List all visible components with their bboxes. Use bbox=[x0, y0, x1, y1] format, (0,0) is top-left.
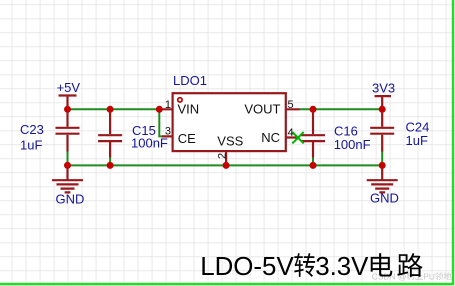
svg-text:3V3: 3V3 bbox=[372, 80, 395, 95]
svg-text:100nF: 100nF bbox=[334, 137, 371, 152]
svg-text:VSS: VSS bbox=[217, 134, 243, 149]
svg-text:NC: NC bbox=[261, 130, 280, 145]
svg-text:C16: C16 bbox=[334, 123, 358, 138]
svg-text:GND: GND bbox=[370, 191, 399, 206]
svg-text:2: 2 bbox=[217, 153, 229, 159]
svg-text:3: 3 bbox=[165, 126, 171, 138]
svg-text:LDO-5V: LDO-5V bbox=[200, 253, 294, 281]
svg-text:4: 4 bbox=[288, 127, 294, 139]
svg-text:C23: C23 bbox=[20, 122, 44, 137]
svg-text:LDO1: LDO1 bbox=[173, 73, 207, 88]
svg-text:1: 1 bbox=[165, 99, 171, 111]
svg-text:PU: PU bbox=[423, 271, 435, 281]
svg-text:100nF: 100nF bbox=[131, 136, 168, 151]
svg-text:+5V: +5V bbox=[57, 80, 81, 95]
svg-text:1uF: 1uF bbox=[406, 133, 428, 148]
svg-text:GND: GND bbox=[56, 191, 85, 206]
svg-text:VOUT: VOUT bbox=[244, 102, 280, 117]
svg-text:1uF: 1uF bbox=[20, 138, 42, 153]
svg-text:VIN: VIN bbox=[178, 102, 200, 117]
svg-text:CE: CE bbox=[178, 131, 196, 146]
svg-text:5: 5 bbox=[288, 99, 294, 111]
svg-text:3.3V: 3.3V bbox=[315, 253, 369, 281]
